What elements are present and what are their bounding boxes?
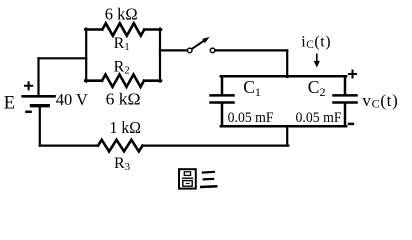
switch contact right [210, 48, 215, 53]
wire capacitor bottom to bottom rail [286, 126, 288, 145]
svg-text:iC(t): iC(t) [301, 34, 331, 52]
plus sign vC [348, 70, 357, 79]
wire bottom rail with resistor R3 [40, 145, 98, 147]
wire battery to parallel block [39, 57, 87, 59]
svg-text:6 kΩ: 6 kΩ [106, 90, 141, 109]
capacitor C1 [211, 76, 234, 126]
battery plus sign [24, 81, 33, 90]
wire battery top vertical [37, 58, 39, 96]
caption char san (three) [200, 172, 218, 187]
wire capacitor bottom rail [221, 125, 346, 128]
battery E short plate [32, 104, 49, 107]
wire parallel block right vertical [159, 29, 161, 82]
minus sign vC [348, 123, 354, 126]
svg-text:E: E [4, 94, 15, 114]
capacitor C2 [334, 76, 357, 126]
resistor R2 [85, 75, 161, 87]
svg-text:6 kΩ: 6 kΩ [105, 5, 138, 24]
svg-text:40 V: 40 V [56, 90, 88, 109]
svg-text:vC(t): vC(t) [362, 91, 398, 111]
resistor R1 [85, 23, 161, 35]
battery minus sign [25, 111, 32, 114]
switch blade with arrow [192, 37, 210, 49]
svg-text:0.05 mF: 0.05 mF [228, 110, 274, 126]
wire R3 to capacitor branch [143, 145, 289, 147]
wire block to switch [160, 49, 187, 51]
wire down into capacitor top rail [286, 50, 288, 77]
wire parallel block left vertical [85, 29, 87, 82]
svg-text:0.05 mF: 0.05 mF [296, 110, 342, 126]
battery E long plate [23, 95, 55, 98]
switch contact left [187, 48, 192, 53]
current arrow iC [314, 54, 320, 68]
svg-text:1 kΩ: 1 kΩ [110, 118, 142, 137]
caption char tu (figure) [179, 169, 196, 188]
wire switch to capacitor corner [215, 49, 287, 51]
wire capacitor top rail [221, 75, 346, 78]
wire battery bottom vertical [39, 106, 41, 146]
resistor R3 [98, 140, 143, 152]
